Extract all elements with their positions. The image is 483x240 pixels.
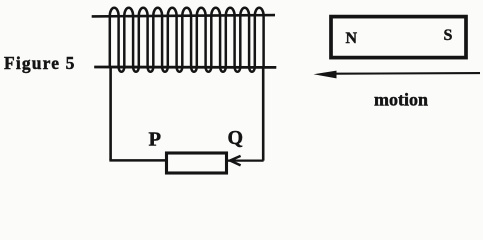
svg-text:Figure 5: Figure 5 xyxy=(4,53,76,73)
wire: right vertical from bottom rail up to coil xyxy=(262,66,265,161)
wire: left vertical from coil to bottom rail xyxy=(109,67,112,160)
svg-text:P: P xyxy=(149,128,162,150)
arrowhead: current direction into resistor at Q xyxy=(230,156,241,166)
motion arrow head (points left) xyxy=(314,71,337,79)
inductor L1 winding (coil turns) xyxy=(110,8,264,72)
wire: bottom horizontal right segment from resistor to right vertical xyxy=(228,159,264,161)
wire: bottom horizontal left segment to resistor xyxy=(109,159,166,162)
motion arrow shaft xyxy=(332,72,480,75)
svg-text:Q: Q xyxy=(228,127,244,149)
bar magnet outline xyxy=(331,17,466,58)
svg-text:N: N xyxy=(346,30,358,47)
svg-text:motion: motion xyxy=(374,89,428,109)
inductor L1 top rail wire xyxy=(92,15,275,16)
svg-text:S: S xyxy=(444,27,453,44)
inductor L1 bottom rail wire xyxy=(94,66,276,69)
resistor R1 (box) xyxy=(167,153,227,173)
